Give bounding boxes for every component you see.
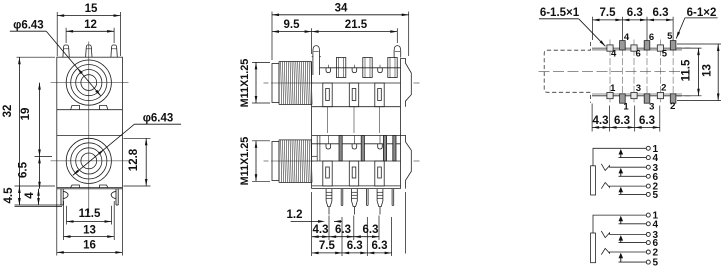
svg-text:M11X1.25: M11X1.25 (239, 59, 251, 108)
upper bushing threads (279, 61, 312, 63)
jack schematic J2 terminal 5 circle and number (646, 260, 650, 264)
dim 11.5 right extensions (677, 47, 702, 49)
svg-text:3: 3 (649, 102, 654, 113)
dim 11.5 extensions (66, 206, 68, 225)
svg-text:5: 5 (653, 258, 659, 269)
dim 11.5 line (67, 221, 112, 223)
svg-text:1.2: 1.2 (287, 209, 303, 221)
side view lower solder lugs with holes (323, 161, 332, 186)
svg-text:7.5: 7.5 (600, 7, 617, 19)
dim 21.5 line (312, 31, 398, 33)
dim 1.2 arrows outside (291, 220, 320, 222)
jack schematic J1 switch arm 4 with arrow (619, 157, 647, 159)
leader 6-1.5X1 underline and arrow (539, 18, 579, 20)
jack schematic J2 tip contact V and terminal 3 (601, 231, 646, 238)
dim 19 bottom reference extension (35, 155, 53, 157)
svg-text:1: 1 (623, 102, 629, 113)
jack schematic J2 switch arm 5 with arrow (619, 261, 647, 263)
side view body-left extension down (311, 192, 313, 256)
side view lower left column (316, 136, 318, 162)
svg-text:4: 4 (624, 32, 630, 43)
jack schematic J1 terminal 4 circle and number (646, 156, 650, 160)
jack schematic J2 ring contact caret and terminal 2 (601, 248, 646, 254)
dim 13 right line (717, 44, 719, 101)
svg-text:6.3: 6.3 (653, 7, 669, 19)
svg-text:6.3: 6.3 (347, 240, 363, 252)
front view top pins (63, 45, 69, 57)
svg-text:3: 3 (636, 83, 641, 94)
jack schematic J1 terminal 6 circle and number (646, 174, 650, 178)
side view lower unit top line (312, 135, 401, 137)
dim 32 extension top (17, 56, 56, 58)
upper circle pedestal feet (71, 105, 80, 109)
svg-text:12.8: 12.8 (128, 148, 140, 171)
svg-text:7.5: 7.5 (319, 240, 336, 252)
svg-text:19: 19 (20, 108, 32, 121)
front view left mounting leg with hook (60, 189, 62, 205)
top view top row tall pads (620, 41, 626, 50)
jack schematic J2 terminal 2 circle and number (646, 250, 650, 254)
svg-text:5: 5 (667, 31, 673, 42)
dim 32/4.5 dimension line (18, 57, 20, 205)
dim 9.5 line (272, 31, 312, 33)
svg-text:21.5: 21.5 (345, 19, 368, 31)
leader phi6.43 lower underline (134, 123, 181, 125)
dim 15 extension lines (56, 12, 58, 56)
svg-text:6.3: 6.3 (627, 7, 643, 19)
top view bottom row small pads (607, 92, 613, 98)
jack schematic J2 terminal 1 circle and number (646, 213, 650, 217)
side view upper U-contacts (326, 68, 331, 73)
svg-text:6.3: 6.3 (639, 115, 655, 127)
dim 12.8 line (145, 138, 147, 186)
jack schematic J1 terminal 5 circle and number (646, 192, 650, 196)
svg-text:16: 16 (83, 240, 96, 252)
side view lower midline (312, 160, 401, 162)
dim 4.5 arrows (18, 186, 20, 205)
svg-text:4.5: 4.5 (3, 187, 15, 204)
lower bushing centerline (264, 160, 269, 162)
svg-text:11.5: 11.5 (681, 59, 693, 81)
leader 6-1X2 underline and arrow (685, 17, 718, 19)
jack schematic J2 sleeve wire to terminal 1 (593, 215, 646, 233)
dim 16 extensions (56, 189, 58, 256)
svg-text:6.3: 6.3 (363, 224, 379, 236)
svg-text:2: 2 (661, 83, 666, 94)
dim 13 right extensions (677, 43, 721, 45)
dim bottom chain 4.3 6.3 6.3 (592, 126, 610, 128)
svg-text:13: 13 (702, 64, 714, 77)
dim 16 line (57, 251, 123, 253)
svg-text:12: 12 (84, 19, 97, 31)
svg-text:6.3: 6.3 (372, 240, 388, 252)
side view upper right bracket (401, 58, 412, 106)
jack schematic J1 sleeve wire to terminal 1 (593, 148, 646, 166)
upper jack hole concentric circles (66, 60, 111, 105)
side view body left edge (311, 62, 313, 189)
dim 12.8 extensions (123, 137, 150, 139)
jack schematic J2 switch arm 4 with arrow (619, 223, 647, 225)
lower circle pedestal feet (71, 185, 80, 188)
svg-text:6.3: 6.3 (614, 115, 630, 127)
jack schematic J2 terminal 3 circle and number (646, 232, 650, 236)
dim 12 extension lines (65, 28, 67, 43)
jack schematic J1 terminal 3 circle and number (646, 165, 650, 169)
dim top chain 7.5 6.3 6.3 (593, 19, 623, 21)
svg-text:5: 5 (662, 48, 668, 59)
side view upper midline (312, 82, 401, 84)
jack schematic J2 switch arm 6 with arrow (619, 242, 647, 244)
top view bottom row tall pads (620, 94, 626, 103)
dim 11.5 right line (698, 48, 700, 96)
side view wide solder pins with crimp segments (326, 189, 332, 207)
svg-text:15: 15 (85, 3, 98, 15)
svg-text:5: 5 (653, 190, 659, 201)
lower bushing cap (272, 142, 279, 181)
dim 9.5/21.5 extensions (311, 28, 313, 54)
leader phi6.43 lower diagonal with arrows (73, 124, 135, 175)
svg-text:6: 6 (636, 49, 641, 60)
svg-text:4: 4 (611, 49, 617, 60)
svg-text:6-1.5×1: 6-1.5×1 (540, 7, 580, 19)
legs bottom extension double line (15, 204, 63, 206)
front view bottom double line (57, 187, 123, 189)
svg-text:M11X1.25: M11X1.25 (239, 137, 251, 186)
side view upper unit bottom line (312, 106, 401, 108)
front view vertical centerline (88, 42, 90, 214)
side view body right edge (400, 58, 402, 188)
top view column centerlines (609, 40, 611, 105)
top view dashed bushing outline (544, 42, 590, 103)
svg-text:6-1×2: 6-1×2 (687, 7, 717, 19)
svg-text:11.5: 11.5 (79, 208, 101, 220)
svg-text:13: 13 (83, 225, 96, 237)
svg-text:4.3: 4.3 (313, 224, 329, 236)
upper bushing cap (272, 64, 279, 103)
dim 13 line (64, 236, 115, 238)
jack schematic J1 switch arm 5 with arrow (619, 193, 647, 195)
top view body row lines (592, 47, 682, 49)
side view upper top-face line (320, 67, 401, 69)
side view body bottom double line (312, 185, 401, 187)
side view upper solder lugs with holes (323, 83, 332, 107)
upper jack hole centerline horizontal (51, 82, 129, 84)
lower jack hole concentric circles (66, 138, 111, 183)
svg-text:6: 6 (649, 32, 654, 43)
svg-text:φ6.43: φ6.43 (143, 112, 174, 124)
jack schematic J2 sleeve bar (591, 233, 596, 263)
jack schematic J1 ring contact caret and terminal 2 (601, 183, 646, 189)
jack schematic J2 terminal 4 circle and number (646, 222, 650, 226)
dim row2 extensions (341, 217, 343, 256)
lower bushing threads (279, 139, 312, 141)
jack schematic J1 tip contact V and terminal 3 (601, 164, 646, 171)
svg-text:1: 1 (610, 83, 616, 94)
dim M11X1.25 lower bracket (255, 141, 257, 182)
lower jack hole centerline horizontal (51, 160, 129, 162)
svg-text:34: 34 (335, 3, 348, 15)
dim top chain extensions (592, 17, 594, 40)
dim bottom chain extensions (591, 104, 593, 132)
svg-text:9.5: 9.5 (284, 19, 301, 31)
side view lower cell walls dark (339, 136, 342, 162)
side view right extension down (405, 192, 407, 254)
dim 13 extensions (63, 201, 65, 240)
leader phi6.43 upper underline (10, 30, 47, 32)
dim 4 line (38, 189, 40, 205)
side view lower shelf line (312, 143, 401, 145)
side view right top post (394, 46, 401, 58)
svg-text:2: 2 (670, 101, 675, 112)
side view lower right bracket (401, 136, 412, 189)
top view horizontal centerline (539, 71, 684, 73)
side view lower U-contacts (326, 144, 331, 149)
svg-text:32: 32 (2, 105, 14, 118)
jack schematic J2 terminal 6 circle and number (646, 241, 650, 245)
upper bushing centerline (264, 82, 269, 84)
dim M11X1.25 upper bracket (255, 62, 257, 103)
svg-text:6.5: 6.5 (18, 161, 30, 178)
svg-text:4: 4 (24, 192, 36, 199)
jack schematic J1 terminal 1 circle and number (646, 146, 650, 150)
side view left top post (313, 46, 320, 75)
top view top row small pads (607, 45, 613, 51)
svg-text:4: 4 (653, 219, 659, 230)
side view thin pins (340, 189, 342, 206)
side view upper tabs (336, 58, 345, 78)
front view right mounting leg with hook (117, 189, 119, 205)
dim 34 line (272, 14, 409, 16)
dim 4.5 top extension (15, 185, 56, 187)
dim 19/6.5 dimension line (39, 83, 41, 157)
dim 34 extensions (271, 12, 273, 61)
front view upper/lower unit split lines (57, 109, 123, 111)
leader phi6.43 upper diagonal with arrows (46, 31, 101, 96)
dim row2 line 7.5 6.3 6.3 (312, 252, 343, 254)
jack schematic J1 sleeve bar (591, 166, 596, 195)
front view body outline (57, 57, 123, 189)
dim 15 line (57, 15, 120, 17)
svg-text:4.3: 4.3 (593, 115, 609, 127)
svg-text:6.3: 6.3 (335, 224, 351, 236)
dim row1 line 4.3 6.3 6.3 (312, 236, 330, 238)
jack schematic J1 terminal 2 circle and number (646, 184, 650, 188)
dim row 4.3/6.3/6.3 extensions (328, 216, 330, 241)
dim 12 line (66, 30, 114, 32)
dim 6.5 line (39, 156, 41, 188)
jack schematic J1 switch arm 6 with arrow (619, 175, 647, 177)
svg-text:φ6.43: φ6.43 (13, 20, 44, 32)
